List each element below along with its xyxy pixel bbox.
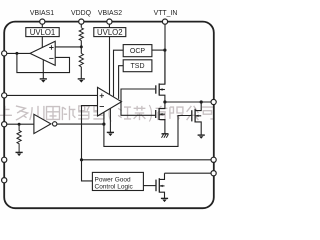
wire U1 feedback loop xyxy=(17,53,70,72)
node VTT sense junction xyxy=(80,158,83,161)
svg-text:Power Good: Power Good xyxy=(95,176,132,183)
wire OCP to error amp A2 xyxy=(114,50,124,96)
resistor R2 (lower divider) xyxy=(79,53,83,66)
Q3 drain xyxy=(195,102,201,111)
Q1 channel bar xyxy=(158,83,160,95)
node Q1/Q2 junction xyxy=(163,100,166,103)
wire UVLO2 to error amp A2 xyxy=(109,37,111,95)
pin VDDQ xyxy=(79,19,84,24)
wire node up to A2 bottom edge xyxy=(103,112,105,124)
svg-text:UVLO1: UVLO1 xyxy=(30,28,56,37)
wire VTT sense to right pin xyxy=(82,159,212,161)
wire VBIAS2 pin to UVLO2 xyxy=(108,24,110,27)
wire A2 + input from left pin xyxy=(7,94,98,96)
svg-text:Control Logic: Control Logic xyxy=(95,184,134,191)
transistor Q3 (discharge FET) gate bar xyxy=(191,110,193,121)
wire VBIAS1 pin to UVLO1 xyxy=(41,24,43,27)
wire inverter output to node xyxy=(57,123,104,125)
svg-text:VTT_IN: VTT_IN xyxy=(154,10,178,17)
OCP box xyxy=(123,45,152,57)
Q3 body arrow xyxy=(196,115,202,117)
pin right 1 (VTT) xyxy=(211,99,216,104)
wire sense node to Power Good box xyxy=(82,160,93,181)
wire U1 output to left pin xyxy=(7,52,30,54)
UVLO2 box xyxy=(94,28,126,37)
transistor Q2 (sink FET) gate bar xyxy=(155,110,157,118)
Power Good Control Logic box xyxy=(92,172,143,190)
A2 - input symbol xyxy=(100,106,104,108)
Q4 source xyxy=(159,192,164,198)
wire R2 to ground xyxy=(80,67,82,79)
ground below R3 xyxy=(16,152,23,156)
Q1 source xyxy=(159,95,165,102)
node inverter output junction xyxy=(102,123,105,126)
transistor Q1 (source FET) gate bar xyxy=(155,85,157,93)
op-amp U1 (VTTREF buffer, points left) xyxy=(30,41,55,65)
wire VTT_IN pin down to Q1 drain xyxy=(164,24,166,84)
UVLO1 box xyxy=(26,28,59,37)
pin left 3 (S3) xyxy=(2,122,7,127)
ground below A2 xyxy=(107,132,114,136)
A2 ground stub xyxy=(109,108,111,132)
Q2 body arrow xyxy=(160,113,165,115)
inverter U2 output bubble xyxy=(53,122,57,126)
resistor R1 (upper divider) xyxy=(79,28,83,41)
transistor Q4 (PGOOD FET) gate bar xyxy=(155,180,157,192)
Q2 channel bar xyxy=(158,108,160,120)
IC package outline xyxy=(4,22,214,209)
wire node to Q3 gate xyxy=(104,116,191,147)
ground below Q3 xyxy=(198,135,205,139)
Q1 drain xyxy=(159,50,165,84)
svg-text:UVLO2: UVLO2 xyxy=(97,28,123,37)
wire VDDQ pin down xyxy=(80,24,82,27)
wire Power Good to Q4 gate xyxy=(143,185,155,187)
svg-text:VBIAS2: VBIAS2 xyxy=(98,10,122,17)
pin left 4 (NC) xyxy=(2,157,7,162)
wire OCP to VTT_IN line xyxy=(152,49,165,51)
pin left 1 (VTTREF) xyxy=(2,51,7,56)
Q4 body arrow xyxy=(160,185,165,187)
wire U1 ground stub xyxy=(42,60,44,79)
ground below R2 xyxy=(78,79,85,83)
ground below Q4 xyxy=(161,198,168,202)
TSD box xyxy=(123,60,152,72)
Q3 source xyxy=(195,122,201,135)
node divider tap xyxy=(80,45,83,48)
pin right 2 (VTTSNS) xyxy=(211,157,216,162)
svg-text:VDDQ: VDDQ xyxy=(71,10,92,17)
hatched ground below Q2 xyxy=(162,134,169,138)
node OCP / VTT_IN junction xyxy=(163,49,166,52)
U1 - input symbol xyxy=(49,57,53,59)
Q2 source xyxy=(159,120,165,134)
Q2 drain xyxy=(159,102,165,109)
pin VBIAS2 xyxy=(107,19,112,24)
pin VBIAS1 xyxy=(40,19,45,24)
Q1 body arrow xyxy=(160,89,165,91)
svg-text:OCP: OCP xyxy=(130,48,146,55)
ground below U1 xyxy=(40,79,47,83)
inverter U2 triangle xyxy=(34,114,51,133)
wire U1 + input to VDDQ divider tap xyxy=(55,46,81,48)
node inverter input / R3 junction xyxy=(18,123,21,126)
Q4 channel bar xyxy=(158,178,160,192)
pin VTT_IN xyxy=(162,19,167,24)
svg-text:TSD: TSD xyxy=(131,63,145,70)
wire Q4 drain to right pin xyxy=(165,172,212,174)
resistor R3 xyxy=(17,124,21,152)
svg-text:VBIAS1: VBIAS1 xyxy=(30,10,54,17)
A2 + input symbol xyxy=(100,94,104,98)
pin right 3 (PGOOD) xyxy=(211,171,216,176)
wire A2 output bus to gates xyxy=(121,89,155,115)
wire inverter input from left pin xyxy=(7,123,34,125)
wire UVLO1 to op-amp U1 top edge xyxy=(41,37,43,48)
pin left 2 (VDDQSNS) xyxy=(2,93,7,98)
node Q3 drain junction xyxy=(200,100,203,103)
Q3 channel bar xyxy=(194,109,196,123)
node U1 output feedback junction xyxy=(15,52,18,55)
Q4 drain xyxy=(159,173,164,179)
wire A2 - input feedback xyxy=(82,106,98,160)
wire VTT output to right pin xyxy=(165,101,211,103)
U1 + input symbol xyxy=(49,45,53,49)
pin left 5 (NC) xyxy=(2,178,7,183)
error amp A2 (points right) xyxy=(98,87,122,116)
wire R1 to tap xyxy=(80,41,82,54)
wire TSD to error amp A2 xyxy=(119,66,124,99)
